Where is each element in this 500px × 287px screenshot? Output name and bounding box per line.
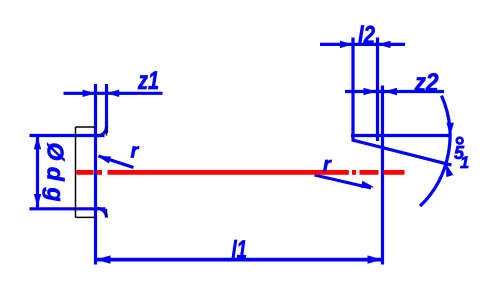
- arrowhead l1 right: [368, 255, 383, 263]
- svg-text:l1: l1: [232, 236, 248, 264]
- leader line r right: [315, 175, 372, 188]
- arrowhead l1 left: [96, 255, 111, 263]
- arrowhead angle arc bottom: [442, 163, 453, 178]
- arrowhead dg top: [34, 136, 41, 149]
- leader line r left: [99, 156, 134, 168]
- angle dimension arc: [420, 96, 450, 206]
- arrowhead z1 right: [106, 90, 119, 97]
- groove right edge top: [106, 127, 108, 136]
- dimension line l2: [320, 43, 405, 46]
- undercut corner radius top: [97, 127, 106, 136]
- extension line x106.5: [105, 84, 108, 133]
- svg-text:l2: l2: [358, 21, 375, 49]
- svg-text:1: 1: [460, 154, 469, 172]
- dimension line dg: [36, 136, 39, 209]
- extension line x377.5: [376, 38, 379, 142]
- red centerline dash-dot: [77, 170, 405, 175]
- part outline black: [76, 127, 107, 217]
- arrowhead angle arc top: [447, 123, 454, 136]
- extension line dg bottom: [30, 207, 106, 210]
- arrowhead z2 right: [384, 88, 397, 95]
- arrowhead z2 left: [364, 88, 377, 95]
- svg-text:z1: z1: [137, 67, 159, 95]
- arrowhead z1 left: [83, 90, 96, 97]
- extension line l2 left x353: [351, 38, 354, 140]
- svg-text:r: r: [323, 154, 332, 176]
- arrowhead leader r left: [96, 152, 111, 163]
- arrowhead l2 left: [340, 41, 353, 48]
- groove right edge bottom: [106, 209, 108, 218]
- dimension line l1: [96, 258, 383, 262]
- undercut corner radius bottom: [97, 208, 106, 217]
- extension line dg top: [30, 134, 105, 137]
- dimension line z2: [345, 90, 444, 93]
- extension line right x382.5: [381, 86, 384, 265]
- thread run-out 15 degree line: [352, 140, 452, 165]
- left end face: [75, 127, 77, 217]
- shoulder surface top: [76, 126, 96, 128]
- arrowhead l2 right: [378, 41, 391, 48]
- arrowhead leader r right: [361, 181, 375, 191]
- reference line horizontal (thread root extension): [351, 134, 452, 137]
- svg-text:r: r: [131, 141, 140, 163]
- shoulder surface bottom: [76, 216, 96, 218]
- svg-text:z2: z2: [414, 69, 439, 97]
- arrowhead dg bottom: [34, 194, 41, 207]
- svg-text:Ødg: Ødg: [43, 143, 69, 209]
- dimension line z1: [64, 92, 163, 95]
- extension line left x95.5: [94, 84, 97, 265]
